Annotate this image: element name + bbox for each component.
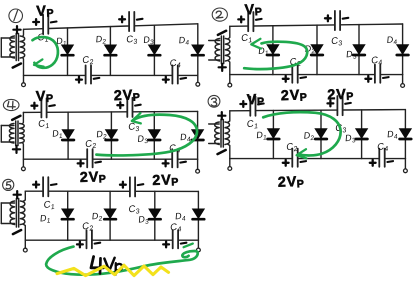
- diode D2 (circuit 2): [304, 25, 323, 75]
- node output terminal right (circuit 4): [196, 159, 200, 173]
- diode D2 (circuit 5): [91, 191, 116, 240]
- node output terminal right (circuit 1): [196, 75, 200, 86]
- diode D2 (circuit 4): [96, 112, 117, 159]
- capacitor C2 (circuit 2): [283, 56, 306, 83]
- capacitor C2 (circuit 5): [77, 220, 100, 248]
- diode D1 (circuit 1): [56, 28, 74, 76]
- node output terminal left (circuit 3): [228, 167, 232, 171]
- transformer T1: [1, 26, 25, 83]
- capacitor C3 (circuit 1): [119, 12, 142, 47]
- annotation green loop (circuit 4): [96, 115, 197, 156]
- capacitor C1 (circuit 5): [33, 177, 56, 212]
- annotation green loop (circuit 2): [244, 42, 307, 69]
- diode D4 (circuit 5): [175, 191, 205, 240]
- diode D3 (circuit 5): [138, 191, 161, 240]
- wire top rail: [24, 24, 198, 30]
- step number 4 in circle: [3, 99, 19, 110]
- node output terminal left (circuit 5): [23, 248, 27, 252]
- diode D4 (circuit 1): [178, 24, 203, 76]
- capacitor C2 (circuit 3): [283, 141, 306, 167]
- diode D4 (circuit 3): [387, 110, 412, 159]
- diode D3 (circuit 1): [143, 25, 160, 75]
- annotation green output sweep with curl (circuit 5): [46, 247, 198, 275]
- step number 2 in circle: [212, 8, 227, 21]
- capacitor C4 (circuit 4): [163, 142, 186, 167]
- wire top rail: [230, 24, 403, 26]
- capacitor C3 (circuit 4): [117, 98, 140, 134]
- node output terminal right (circuit 2): [401, 75, 405, 88]
- wire bottom rail: [23, 158, 197, 160]
- node output terminal right (circuit 5): [197, 240, 201, 252]
- diode D1 (circuit 4): [52, 112, 74, 159]
- capacitor C1 (circuit 3): [240, 97, 263, 132]
- capacitor C3 (circuit 5): [120, 177, 143, 216]
- diode D2 (circuit 3): [303, 110, 327, 158]
- wire bottom rail: [24, 74, 198, 76]
- diode D1 (circuit 3): [256, 111, 279, 159]
- diode D1 (circuit 2): [258, 26, 279, 75]
- wire bottom rail: [230, 74, 403, 76]
- capacitor C4 (circuit 2): [365, 54, 388, 82]
- capacitor C1 (circuit 4): [32, 98, 55, 131]
- capacitor C3 (circuit 2): [325, 11, 348, 48]
- annotation green loop (circuit 3): [263, 112, 340, 155]
- diode D1 (circuit 5): [39, 191, 73, 240]
- wire top rail: [25, 190, 198, 192]
- node output terminal right (circuit 3): [404, 159, 408, 173]
- capacitor C4 (circuit 1): [163, 57, 186, 83]
- capacitor C4 (circuit 3): [370, 141, 393, 167]
- transformer T3: [209, 111, 230, 167]
- step number 1 in circle: [9, 9, 23, 23]
- diode D3 (circuit 2): [346, 25, 365, 75]
- transformer T5: [1, 191, 25, 248]
- transformer T2: [209, 26, 230, 83]
- diode D2 (circuit 1): [95, 27, 116, 76]
- highlight yellow zigzag: [57, 265, 169, 275]
- diode D4 (circuit 2): [386, 24, 408, 75]
- annotation green charge loop (circuit 1): [33, 37, 58, 68]
- step number 5 in circle: [3, 179, 14, 190]
- transformer T4: [1, 112, 24, 166]
- wire top rail: [23, 111, 197, 112]
- capacitor C4 (circuit 5): [163, 221, 186, 248]
- wire bottom rail: [230, 158, 406, 160]
- diode D3 (circuit 4): [137, 112, 160, 160]
- capacitor C2 (circuit 1): [76, 54, 99, 84]
- node output terminal left (circuit 2): [228, 83, 232, 87]
- node output terminal left (circuit 1): [22, 83, 26, 87]
- capacitor C3 (circuit 3): [328, 96, 351, 135]
- capacitor C1 (circuit 1): [33, 15, 56, 45]
- wire bottom rail: [25, 239, 198, 241]
- wire top rail: [230, 110, 406, 111]
- capacitor C1 (circuit 2): [238, 12, 261, 45]
- node output terminal left (circuit 4): [22, 167, 26, 171]
- diode D4 (circuit 4): [180, 111, 204, 159]
- step number 3 in circle: [208, 95, 220, 107]
- diode D3 (circuit 3): [345, 110, 368, 159]
- label 4Vp (final output, circuit 5): [91, 257, 104, 268]
- capacitor C2 (circuit 4): [78, 138, 101, 168]
